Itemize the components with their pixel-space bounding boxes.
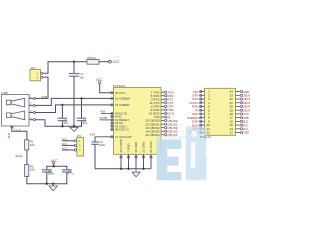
pin FT 23 CBUS0 [145, 119, 177, 123]
capacitor C5 [46, 166, 48, 169]
pin DIL24 7 / 18 [192, 112, 250, 116]
wire gnd rail bottom [95, 168, 151, 170]
svg-text:28 OSC O: 28 OSC O [115, 128, 130, 132]
capacitor C6 [66, 166, 68, 169]
connector USB [2, 95, 30, 127]
junction VCC cap rail [53, 165, 55, 167]
svg-text:VCC: VCC [62, 147, 69, 151]
svg-text:21 GND: 21 GND [142, 141, 146, 153]
left pins FT232RL [90, 91, 132, 139]
svg-text:25 A GND: 25 A GND [119, 138, 123, 152]
svg-text:7 GND: 7 GND [127, 143, 131, 153]
right pins FT232RL [145, 90, 177, 137]
pin DIL24 2 / 23 [192, 93, 253, 97]
ferrite bead FB1/2 [87, 59, 99, 64]
svg-text:17 3V3-OUT: 17 3V3-OUT [115, 135, 132, 139]
wire USB GND pin4 [35, 120, 81, 127]
svg-text:16 USBDM: 16 USBDM [115, 97, 131, 101]
junction gnd stub [52, 183, 54, 185]
wire shield to R1 [12, 128, 27, 140]
pin 21 GND [143, 154, 145, 169]
wire JP2-1 up to rail [47, 62, 49, 74]
bottom pins FT232RL [121, 154, 151, 169]
ground symbol FT [132, 169, 140, 177]
svg-text:15 USBDP: 15 USBDP [115, 103, 130, 107]
junction gnd rail mid [73, 125, 75, 127]
wire FB to +VCC port [99, 61, 109, 63]
svg-text:3V3B: 3V3B [100, 116, 107, 120]
svg-text:10k: 10k [30, 143, 35, 147]
pin DIL24 5 / 20 [192, 105, 253, 109]
pin DIL24 4 / 21 [189, 101, 253, 105]
pin 25 AGND [120, 154, 122, 169]
pin FT 11 CTS [150, 101, 174, 105]
capacitor C3 [81, 98, 83, 118]
pin 20 VCC [111, 91, 127, 95]
pin 27 OSCI [111, 124, 128, 128]
pin DIL24 1 / 24 [193, 90, 251, 94]
pin FT 12 CBUS4 [145, 133, 177, 137]
pin JP2-1 [41, 72, 43, 74]
junction gnd rail dots [120, 168, 122, 170]
svg-text:18 GND: 18 GND [134, 141, 138, 153]
pin FT 1 TXD [151, 90, 174, 94]
node VCC mid circle [53, 162, 55, 164]
wire VBUS rail top [48, 61, 87, 63]
svg-text:4.7u: 4.7u [68, 171, 74, 175]
pin FT 5 RXD [151, 94, 175, 98]
wire R1 to R2 [26, 150, 28, 165]
svg-text:JP2: JP2 [31, 66, 37, 70]
pin FT 14 CBUS3 [145, 129, 177, 133]
pin 15 USBDP [111, 103, 130, 107]
pin 28 OSCO [111, 128, 130, 132]
pin FT 10 DCD [149, 112, 175, 116]
pin JP2-2 [41, 76, 43, 78]
wire USBDM D- [35, 98, 111, 105]
svg-text:3V3: 3V3 [62, 137, 68, 141]
svg-text:20 VCC: 20 VCC [115, 91, 126, 95]
IC U1 FT232RL body [114, 88, 162, 155]
capacitor C2 [61, 105, 63, 118]
svg-text:13: 13 [229, 131, 233, 135]
pin 24 NC [111, 121, 125, 125]
ground symbol USB caps [70, 127, 78, 131]
pin DIL24 6 / 19 [196, 108, 253, 112]
svg-text:FT232RL: FT232RL [113, 84, 126, 88]
ground symbol mid [52, 184, 54, 186]
wire JP2-2 down to USB VBUS [47, 77, 49, 98]
junction C1 on VBUS rail [73, 61, 75, 63]
wire VBUS pin1 [35, 97, 48, 99]
pin 16 USBDM [111, 97, 131, 101]
pin DIL24 8 / 17 [187, 116, 248, 120]
pin JP1-2 [74, 144, 76, 146]
svg-text:SLD1: SLD1 [15, 154, 23, 158]
watermark letter E top arm [167, 139, 181, 149]
capacitor C1 [73, 62, 75, 74]
svg-text:10k: 10k [30, 168, 35, 172]
svg-text:SLD: SLD [7, 132, 11, 139]
pin 4 VCCIO [101, 112, 128, 116]
junction C2 tap on D+ [61, 104, 63, 106]
pin 17 3V3OUT [95, 135, 132, 139]
pin 7 GND [128, 154, 130, 169]
node VCC top circle [99, 81, 101, 83]
pin DIL24 3 / 22 [193, 97, 253, 101]
junction C3 tap on D- [80, 97, 82, 99]
svg-text:47p: 47p [82, 121, 87, 125]
pin 8 NC [111, 115, 123, 119]
svg-text:GND: GND [243, 131, 251, 135]
pin FT 6 RI [154, 115, 171, 119]
pin JP1-1 [74, 140, 76, 142]
svg-text:VIO: VIO [62, 142, 68, 146]
pin 18 GND [135, 154, 137, 169]
svg-text:ELEKTRONIK SHOP: ELEKTRONIK SHOP [157, 135, 189, 139]
watermark bar dot [191, 131, 197, 137]
svg-text:KO: KO [203, 143, 214, 158]
pin 26 TEST [150, 154, 152, 169]
pins DIL24 [187, 90, 253, 135]
wire USBDP D+ [35, 105, 111, 113]
svg-text:JP1: JP1 [77, 134, 82, 138]
connector JP2 [30, 70, 41, 81]
pin DIL24 11 / 14 [193, 127, 249, 131]
pin FT 13 CBUS2 [145, 126, 177, 130]
pin FT 3 RTS [151, 97, 173, 101]
pin FT 22 CBUS1 [145, 122, 177, 126]
junction gnd rail left [61, 125, 63, 127]
resistor R2 [25, 165, 29, 177]
svg-text:26 TEST: 26 TEST [149, 141, 153, 153]
svg-text:VIO: VIO [100, 110, 106, 114]
wire R2 to gnd rail [27, 177, 67, 184]
pin DIL24 9 / 16 [192, 119, 249, 123]
svg-text:FB1/2: FB1/2 [88, 56, 97, 60]
connector JP1 [77, 138, 84, 157]
svg-text:P-DIL24: P-DIL24 [200, 135, 211, 139]
svg-text:100n: 100n [99, 143, 106, 147]
USB plug glyph bottom [7, 113, 12, 118]
svg-text:100n: 100n [48, 171, 55, 175]
pin FT 2 DTR [151, 105, 175, 109]
wire VCC node to cap rail [47, 164, 67, 166]
capacitor C4 [91, 137, 105, 169]
IC DIL24 body [205, 88, 236, 135]
svg-text:SLD: SLD [15, 128, 22, 132]
USB plug glyph top [7, 100, 12, 105]
svg-text:USB: USB [2, 91, 8, 95]
pin FT 9 DSR [151, 108, 175, 112]
svg-text:47p: 47p [63, 121, 68, 125]
watermark letter E bottom arm [167, 172, 181, 180]
pin DIL24 12 / 13 [189, 131, 250, 135]
pin DIL24 10 / 15 [192, 123, 248, 127]
junction C5 bottom [46, 183, 48, 185]
svg-text:VCC: VCC [113, 60, 121, 64]
pin JP1-3 [74, 149, 76, 151]
watermark letter E mid arm [167, 157, 178, 166]
watermark logo [157, 127, 214, 181]
svg-text:3V3: 3V3 [90, 133, 96, 137]
watermark bar [186, 127, 207, 181]
bottom pin names [119, 138, 153, 152]
wire VCC to pin20 [100, 84, 111, 93]
watermark bar gap [191, 142, 196, 168]
pin 19 RESET [100, 118, 130, 122]
node +VCC port circle [109, 60, 112, 63]
resistor R1 [25, 140, 29, 150]
svg-text:10n: 10n [79, 75, 84, 79]
watermark letter E stem [157, 139, 168, 180]
